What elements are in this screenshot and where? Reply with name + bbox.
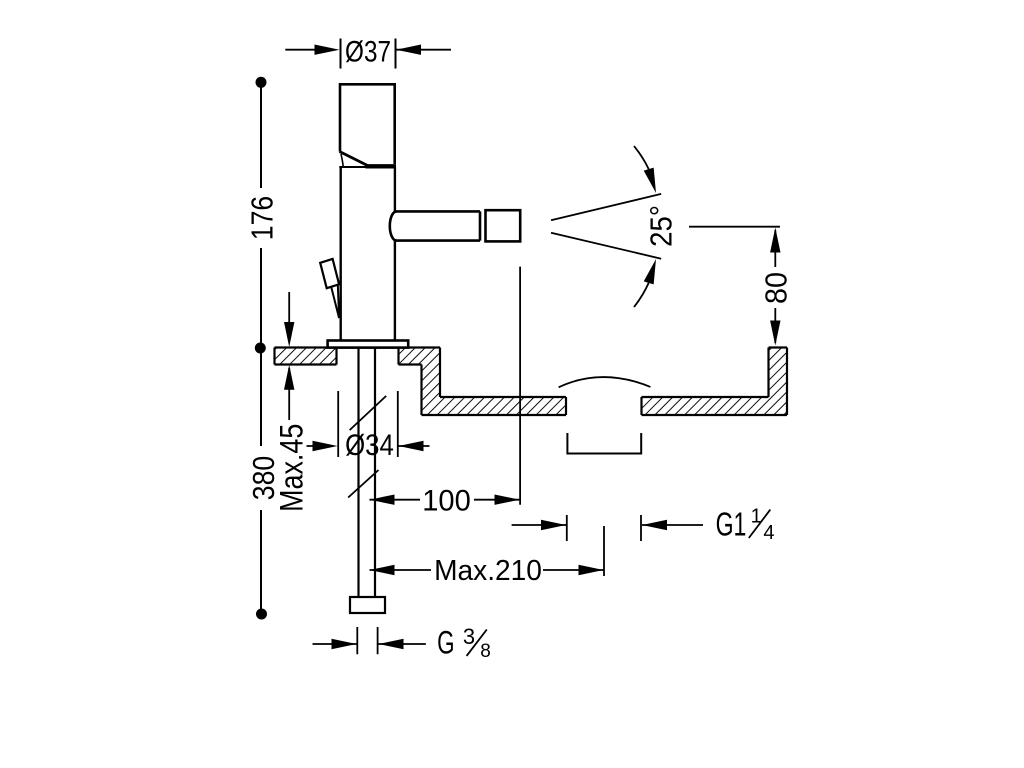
label G1 1/4 xyxy=(716,505,775,544)
drain dome arc xyxy=(559,377,651,387)
dim dots xyxy=(255,77,267,620)
svg-text:176: 176 xyxy=(246,196,280,240)
deck outline xyxy=(275,348,788,416)
svg-text:Max.210: Max.210 xyxy=(434,555,542,587)
svg-text:G1: G1 xyxy=(716,507,747,544)
svg-text:4: 4 xyxy=(763,522,774,544)
supply pipe xyxy=(359,348,376,597)
drain bracket xyxy=(567,433,641,454)
deck hatch fill xyxy=(275,348,788,416)
faucet body xyxy=(341,167,395,341)
bottom fitting xyxy=(350,597,385,613)
spout xyxy=(390,210,520,241)
svg-text:100: 100 xyxy=(422,484,471,517)
dim Max.210 xyxy=(370,526,605,576)
svg-text:25°: 25° xyxy=(644,205,679,247)
faucet handle block xyxy=(339,84,396,167)
svg-text:Ø34: Ø34 xyxy=(345,428,394,461)
svg-text:Max.45: Max.45 xyxy=(274,424,310,512)
svg-text:80: 80 xyxy=(760,272,794,304)
svg-text:8: 8 xyxy=(480,641,491,662)
handle lever side view xyxy=(320,259,339,318)
dim 80 xyxy=(689,227,780,343)
dim G1 1/4 xyxy=(512,515,703,541)
dim 176/380 vertical line xyxy=(260,82,262,614)
dim G 3/8 xyxy=(313,627,426,654)
svg-text:3: 3 xyxy=(463,624,475,649)
label G 3/8 xyxy=(437,624,491,662)
dim Max.45 xyxy=(288,292,290,420)
dim Ø34 extension lines xyxy=(307,391,430,457)
base flange xyxy=(328,341,409,348)
pipe slash marks xyxy=(348,396,386,498)
dim 100 xyxy=(370,267,521,505)
svg-text:Ø37: Ø37 xyxy=(345,34,391,68)
svg-text:G: G xyxy=(437,625,454,661)
dim Ø37 xyxy=(285,39,451,69)
dim 25 degrees xyxy=(551,146,661,307)
